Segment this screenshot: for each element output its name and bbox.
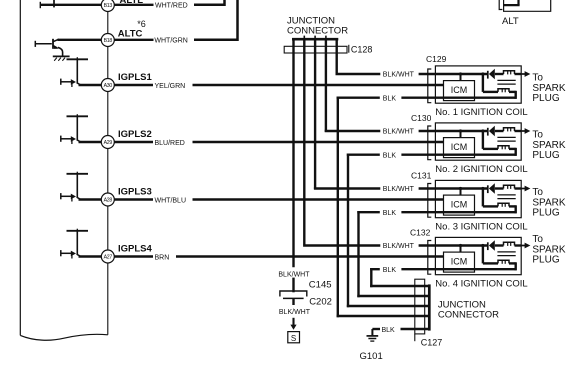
svg-text:WHT/BLU: WHT/BLU: [155, 198, 187, 205]
svg-text:G101: G101: [360, 351, 383, 362]
svg-text:A29: A29: [104, 140, 113, 146]
svg-text:ICM: ICM: [451, 257, 468, 267]
svg-text:IGPLS2: IGPLS2: [118, 129, 152, 140]
svg-text:BLK: BLK: [383, 95, 397, 102]
svg-text:A30: A30: [104, 83, 113, 89]
svg-text:CONNECTOR: CONNECTOR: [287, 25, 348, 36]
svg-text:IGPLS4: IGPLS4: [118, 244, 153, 255]
svg-text:IGPLS1: IGPLS1: [118, 72, 153, 83]
svg-text:BLK: BLK: [383, 152, 397, 159]
svg-text:PLUG: PLUG: [532, 150, 559, 161]
svg-text:ALT: ALT: [502, 16, 519, 27]
svg-text:BLK: BLK: [382, 327, 396, 334]
svg-text:No. 2 IGNITION COIL: No. 2 IGNITION COIL: [435, 164, 527, 175]
svg-text:BLK: BLK: [383, 210, 397, 217]
svg-text:B18: B18: [104, 38, 113, 44]
svg-text:ALTC: ALTC: [118, 29, 143, 40]
svg-text:BLK: BLK: [383, 267, 397, 274]
svg-text:B13: B13: [104, 3, 113, 9]
svg-text:BLK/WHT: BLK/WHT: [383, 186, 415, 193]
svg-text:BLK/WHT: BLK/WHT: [278, 271, 310, 278]
svg-text:No. 1 IGNITION COIL: No. 1 IGNITION COIL: [435, 107, 527, 118]
svg-text:BLK/WHT: BLK/WHT: [383, 243, 415, 250]
svg-text:C130: C130: [411, 113, 432, 123]
svg-text:C128: C128: [351, 45, 373, 55]
svg-text:No. 3 IGNITION COIL: No. 3 IGNITION COIL: [435, 221, 527, 232]
svg-text:BLK/WHT: BLK/WHT: [279, 309, 311, 316]
svg-text:WHT/RED: WHT/RED: [155, 3, 188, 10]
svg-text:A28: A28: [104, 197, 113, 203]
svg-text:*6: *6: [137, 19, 146, 29]
svg-text:C132: C132: [410, 228, 431, 238]
svg-text:ICM: ICM: [451, 200, 468, 210]
svg-text:CONNECTOR: CONNECTOR: [438, 309, 499, 320]
svg-text:YEL/GRN: YEL/GRN: [155, 83, 186, 90]
svg-text:BLK/WHT: BLK/WHT: [383, 129, 415, 136]
svg-text:BLK/WHT: BLK/WHT: [383, 72, 415, 79]
svg-text:C145: C145: [309, 280, 332, 291]
svg-text:C131: C131: [411, 171, 432, 181]
svg-text:ICM: ICM: [451, 142, 468, 152]
svg-text:A27: A27: [104, 254, 113, 260]
svg-text:PLUG: PLUG: [532, 208, 559, 219]
svg-text:WHT/GRN: WHT/GRN: [154, 38, 187, 45]
svg-text:C127: C127: [421, 338, 443, 348]
svg-text:PLUG: PLUG: [532, 255, 559, 266]
svg-text:BRN: BRN: [155, 255, 170, 262]
svg-text:IGPLS3: IGPLS3: [118, 187, 152, 198]
svg-text:No. 4 IGNITION COIL: No. 4 IGNITION COIL: [435, 278, 527, 289]
svg-text:S: S: [291, 334, 296, 343]
svg-text:C202: C202: [309, 296, 332, 307]
svg-text:C129: C129: [426, 54, 447, 64]
svg-text:ICM: ICM: [451, 85, 468, 95]
svg-text:PLUG: PLUG: [532, 93, 559, 104]
svg-text:BLU/RED: BLU/RED: [155, 140, 185, 147]
